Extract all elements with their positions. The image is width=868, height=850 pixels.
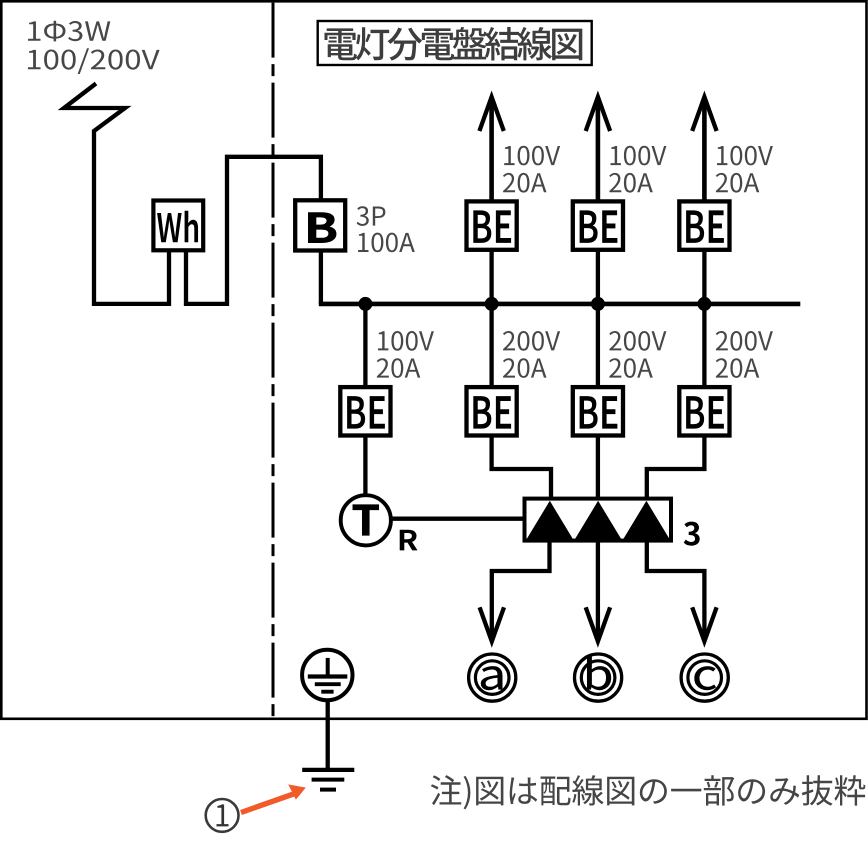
- label 200V 20A lower 3: [609, 331, 666, 378]
- wire BE lower 3 to relay box: [596, 437, 600, 498]
- wire BE lower 1 to timer T: [363, 437, 367, 495]
- label 100V 20A upper 1: [503, 146, 560, 193]
- relay triangle 1: [526, 501, 574, 541]
- wire timer T to relay box: [391, 517, 524, 521]
- junction node B on bus: [485, 297, 499, 311]
- main breaker B 3P 100A: [295, 200, 345, 250]
- relay triangle 3: [622, 501, 670, 541]
- label 100V 20A lower 1: [377, 331, 434, 378]
- label 100A: [358, 233, 415, 253]
- wire BE upper 1 to bus: [489, 251, 493, 304]
- title box 電灯分電盤結線図: [318, 21, 592, 65]
- wire B to bus: [319, 251, 323, 304]
- wire BE upper 2 to bus: [596, 251, 600, 304]
- remote-control relay box (3 relays): [525, 499, 672, 541]
- label 3P: [357, 206, 386, 226]
- wire bus to BE lower 3: [596, 304, 600, 386]
- node b (circled terminal): [575, 654, 622, 701]
- breaker BE lower 1: [340, 387, 390, 435]
- upper branch 1: wire with arrow to load: [489, 97, 494, 200]
- arrowhead down a: [480, 607, 504, 641]
- label 200V 20A lower 4: [716, 331, 773, 378]
- wire BE lower 4 to relay box: [647, 437, 705, 498]
- node c (circled terminal): [681, 654, 728, 701]
- arrowhead up branch 2: [586, 97, 610, 131]
- callout circled 1: [206, 799, 239, 832]
- label 200V 20A lower 2: [503, 331, 560, 378]
- watt-hour meter Wh: [153, 201, 203, 251]
- ground electrode symbol (circle with earth mark): [302, 650, 352, 700]
- service drop line (zigzag) and wire to Wh: [64, 84, 169, 304]
- wire bus to BE lower 1: [363, 304, 367, 386]
- breaker BE upper 1: [467, 201, 517, 249]
- arrowhead up branch 1: [479, 97, 503, 131]
- dashed boundary line (panel boundary): [272, 3, 275, 718]
- wire relay box to arrow b: [596, 541, 600, 641]
- arrowhead down c: [692, 607, 716, 641]
- junction node A on bus: [358, 297, 372, 311]
- wire relay box to arrow a: [492, 541, 550, 641]
- label 100V 20A upper 2: [609, 146, 666, 193]
- node a (circled terminal): [469, 654, 516, 701]
- subscript R of timer: [400, 530, 418, 551]
- breaker BE lower 2: [467, 387, 517, 435]
- breaker BE upper 3: [679, 201, 729, 249]
- junction node C on bus: [591, 297, 605, 311]
- wire BE upper 3 to bus: [702, 251, 706, 304]
- note 注)図は配線図の一部のみ抜粋: [431, 775, 866, 809]
- arrowhead up branch 3: [692, 97, 716, 131]
- orange callout arrow: [241, 784, 306, 812]
- label 100/200V: [28, 48, 160, 74]
- wire bus to BE lower 4: [702, 304, 706, 386]
- breaker BE upper 2: [573, 201, 623, 249]
- earth ground symbol: [302, 770, 354, 790]
- upper branch 2: wire with arrow to load: [596, 97, 601, 200]
- label 3 (relay count): [684, 522, 700, 546]
- relay triangle 2: [574, 501, 622, 541]
- timer TR (circle T with subscript R): [341, 495, 391, 545]
- breaker BE lower 4: [679, 387, 729, 435]
- label 100V 20A upper 3: [716, 146, 773, 193]
- ground wire: [326, 700, 330, 770]
- breaker BE lower 3: [573, 387, 623, 435]
- junction node D on bus: [697, 297, 711, 311]
- arrowhead down b: [586, 607, 610, 641]
- horizontal bus wire: [319, 302, 801, 307]
- label 1Φ3W: [28, 21, 110, 42]
- wire bus to BE lower 2: [489, 304, 493, 386]
- wire BE lower 2 to relay box: [492, 437, 551, 498]
- upper branch 3: wire with arrow to load: [702, 97, 707, 200]
- wire Wh right lead to breaker B: [186, 157, 321, 304]
- wire relay box to arrow c: [647, 541, 705, 641]
